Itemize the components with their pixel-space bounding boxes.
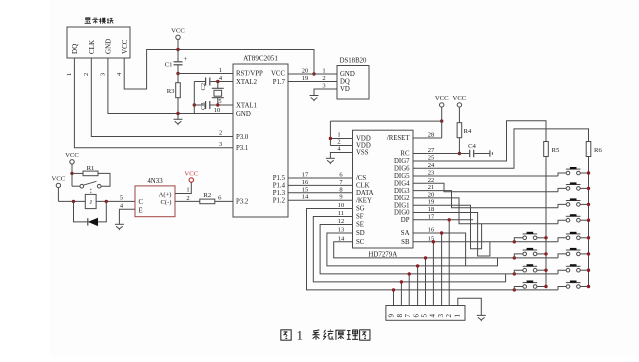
svg-text:3: 3 — [100, 73, 107, 76]
wire relay right — [96, 200, 135, 202]
resistor R1 — [72, 165, 110, 186]
AT89C2051 right pin numbers — [302, 68, 309, 201]
svg-text:11: 11 — [338, 210, 344, 217]
svg-text:21: 21 — [428, 184, 434, 191]
resistor R6 — [586, 142, 602, 157]
svg-text:14: 14 — [338, 235, 345, 242]
node SL6 column — [544, 252, 547, 255]
svg-text:P1.5: P1.5 — [273, 175, 286, 182]
HD7279A pin names — [356, 135, 410, 246]
svg-text:DIG1: DIG1 — [394, 202, 409, 209]
svg-text:13: 13 — [338, 227, 344, 234]
svg-text:C1: C1 — [165, 62, 173, 69]
4N33 pin names — [139, 191, 172, 214]
display module pin labels — [71, 39, 129, 54]
svg-text:VCC: VCC — [453, 95, 467, 102]
svg-text:C(-): C(-) — [161, 199, 172, 206]
svg-text:28: 28 — [428, 132, 434, 139]
wire SD segment — [327, 233, 498, 266]
svg-text:R1: R1 — [87, 165, 95, 172]
wire 4N33 E to ground — [119, 209, 135, 224]
svg-text:22: 22 — [428, 177, 434, 184]
svg-text:23: 23 — [428, 170, 434, 177]
svg-text:5: 5 — [421, 314, 429, 318]
svg-text:VD: VD — [340, 86, 350, 93]
wire DP — [413, 219, 473, 221]
wire R6 column — [580, 157, 588, 287]
resistor R5 — [544, 142, 560, 157]
display pin numbers — [66, 72, 123, 76]
svg-text:VDD: VDD — [356, 136, 371, 143]
node C1/R3/RST junction — [176, 72, 179, 75]
node SL7 column — [544, 269, 547, 272]
svg-text:DQ: DQ — [340, 79, 350, 86]
wire connector pin7 vertical — [408, 274, 410, 306]
svg-text:16: 16 — [428, 227, 435, 234]
crystal Y1 — [212, 82, 224, 106]
svg-text:A(+): A(+) — [159, 191, 172, 198]
capacitor C4 — [468, 143, 492, 157]
svg-text:10: 10 — [214, 107, 220, 114]
AT89C2051 left pin numbers — [214, 67, 223, 202]
wire connector pin6 vertical — [417, 266, 419, 306]
node SR7 column — [587, 269, 590, 272]
wire DQ to P3.1 — [74, 58, 233, 148]
wire DIG0 hook — [413, 213, 490, 257]
svg-text:DIG5: DIG5 — [394, 173, 410, 180]
node v5 — [424, 256, 427, 259]
ground below VSS — [326, 158, 335, 164]
svg-text:VCC: VCC — [435, 95, 449, 102]
wire DIG2 row4 — [413, 198, 558, 224]
svg-text:/RESET: /RESET — [387, 135, 411, 142]
svg-text:DQ: DQ — [71, 44, 79, 54]
svg-text:5: 5 — [218, 98, 221, 105]
key SR5 — [558, 232, 589, 242]
node v2 — [400, 280, 403, 283]
svg-text:10: 10 — [338, 202, 344, 209]
svg-text:R6: R6 — [594, 147, 602, 154]
svg-text:DIG0: DIG0 — [394, 210, 410, 217]
svg-text:XTAL2: XTAL2 — [236, 79, 258, 86]
key SR8 — [558, 281, 589, 290]
svg-text:R5: R5 — [552, 147, 560, 154]
wire GND rail — [108, 58, 233, 114]
relay J coil — [85, 194, 96, 208]
svg-text:3: 3 — [219, 141, 222, 148]
wire SF segment — [313, 217, 505, 282]
wire R5 column — [537, 157, 546, 287]
VCC symbol above R4 — [453, 95, 467, 123]
svg-text:2: 2 — [445, 314, 453, 318]
wire connector pin1 to ground — [458, 298, 482, 315]
wire SE segment row7 — [320, 225, 558, 274]
caption — [281, 328, 370, 343]
connector J1 box — [386, 306, 465, 321]
node v3 — [408, 272, 411, 275]
svg-text:DATA: DATA — [356, 190, 374, 197]
resistor R3 — [167, 74, 181, 114]
wire DIG7 to R5 — [413, 121, 546, 161]
svg-text:1: 1 — [297, 328, 303, 343]
svg-text:P1.2: P1.2 — [273, 197, 286, 204]
svg-text:P3.0: P3.0 — [236, 134, 249, 141]
svg-text:16: 16 — [302, 179, 309, 186]
wire P1.5 to /CS — [288, 177, 353, 179]
svg-text:P3.2: P3.2 — [236, 199, 249, 206]
svg-text:GND: GND — [340, 71, 355, 78]
svg-text:CLK: CLK — [356, 183, 370, 190]
node row5 tap — [513, 240, 516, 243]
wire RESET — [413, 121, 442, 138]
svg-text:8: 8 — [396, 314, 404, 318]
wire P1.2 to /KEY — [288, 199, 353, 201]
node RC junction — [458, 152, 461, 155]
wire XTAL2 row — [194, 81, 233, 83]
wire VD to ground — [314, 89, 337, 96]
svg-text:SD: SD — [356, 230, 365, 237]
svg-text:C2: C2 — [200, 83, 207, 91]
VCC symbol above RESET — [435, 95, 449, 121]
svg-text:4: 4 — [429, 314, 437, 318]
wire CLK to P3.0 — [91, 58, 233, 137]
svg-text:DP: DP — [401, 217, 410, 224]
svg-text:DIG7: DIG7 — [394, 158, 410, 165]
svg-text:20: 20 — [428, 191, 434, 198]
DS18B20 pin names — [340, 71, 355, 93]
node VCC rail junction — [176, 48, 179, 51]
node VCC RESET junction — [440, 119, 443, 122]
node v7 — [440, 231, 443, 234]
svg-text:C4: C4 — [468, 143, 476, 150]
svg-text:3: 3 — [437, 314, 445, 318]
key SL8 — [514, 281, 546, 290]
svg-text:2: 2 — [337, 139, 340, 146]
node row7 tap — [513, 272, 516, 275]
svg-text:SA: SA — [401, 230, 410, 237]
node SL5 column — [544, 236, 547, 239]
svg-text:1: 1 — [219, 67, 222, 74]
wire connector pin5 vertical — [425, 258, 427, 306]
node VDD junction — [329, 137, 332, 140]
svg-text:SF: SF — [356, 214, 364, 221]
HD7279A right pin numbers — [428, 132, 435, 243]
AT89C2051 left pin names — [236, 71, 263, 206]
key SR4 — [558, 214, 589, 224]
svg-text:14: 14 — [302, 194, 309, 201]
svg-text:8: 8 — [339, 186, 342, 193]
wire SB row5 — [413, 241, 558, 243]
node VCC pin20 junction — [312, 72, 315, 75]
wire RC — [413, 153, 469, 155]
wire connector pin9 vertical — [393, 290, 395, 306]
capacitor C1 — [165, 50, 188, 74]
svg-text:E: E — [139, 207, 143, 214]
svg-text:RST/VPP: RST/VPP — [236, 71, 263, 78]
svg-text:12: 12 — [338, 218, 344, 225]
wire SG segment row8 — [307, 209, 559, 290]
node R5 column row8 — [544, 285, 547, 288]
node SR6 column — [587, 252, 590, 255]
wire connector pin3 vertical — [441, 233, 443, 306]
VCC symbol top — [171, 28, 185, 50]
capacitor C3 — [200, 101, 210, 110]
VCC red above 4N33 — [184, 171, 198, 183]
wire DIG5 row1 — [413, 175, 558, 177]
node XTAL2 junction — [216, 80, 219, 83]
key SR3 — [558, 198, 589, 207]
svg-text:R3: R3 — [167, 88, 175, 95]
IC U1 AT89C2051 box — [233, 55, 288, 218]
diode D1 flyback — [74, 201, 107, 226]
DS18B20 pin numbers — [322, 68, 325, 90]
key SR2 — [558, 182, 589, 191]
svg-text:C3: C3 — [200, 102, 207, 110]
svg-text:GND: GND — [105, 39, 113, 54]
svg-text:6: 6 — [412, 314, 420, 318]
svg-text:P3.1: P3.1 — [236, 145, 248, 152]
display module box — [67, 18, 130, 58]
AT89C2051 right pin names — [271, 71, 286, 205]
svg-text:1: 1 — [453, 314, 461, 318]
svg-text:17: 17 — [428, 213, 435, 220]
wire P1.7 to DQ — [288, 81, 337, 83]
svg-text:SE: SE — [356, 222, 364, 229]
wire 4N33 pin1 to VCC — [175, 182, 191, 193]
svg-text:DIG4: DIG4 — [394, 181, 410, 188]
node relay right junction — [105, 200, 108, 203]
svg-text:9: 9 — [339, 194, 342, 201]
switch S1 — [72, 173, 101, 188]
svg-text:VDD: VDD — [356, 143, 371, 150]
wire VCC to relay — [58, 200, 85, 202]
node R1 left junction — [70, 172, 73, 175]
svg-text:RC: RC — [400, 151, 410, 158]
svg-text:1: 1 — [186, 187, 189, 194]
ground below 4N33 — [115, 224, 124, 230]
svg-text:CLK: CLK — [88, 40, 96, 54]
wire RST — [178, 73, 233, 75]
svg-text:R4: R4 — [464, 128, 472, 135]
svg-text:1: 1 — [66, 73, 73, 76]
svg-text:VCC: VCC — [171, 28, 185, 35]
svg-text:VCC: VCC — [52, 176, 66, 183]
node row8 tap — [513, 288, 516, 291]
svg-text:GND: GND — [236, 111, 251, 118]
VCC symbol above R1 — [65, 152, 79, 173]
svg-text:9: 9 — [388, 314, 396, 318]
svg-text:1: 1 — [337, 132, 340, 139]
svg-text:2: 2 — [83, 73, 90, 76]
svg-text:R2: R2 — [203, 192, 211, 199]
svg-text:4N33: 4N33 — [147, 178, 163, 185]
svg-text:SG: SG — [356, 206, 365, 213]
node v8 — [448, 218, 451, 221]
wire DIG3 row3 — [413, 191, 558, 208]
svg-text:18: 18 — [428, 206, 434, 213]
svg-text:1: 1 — [322, 68, 325, 75]
resistor R2 — [175, 192, 233, 204]
ground below DS18B20 — [310, 96, 319, 102]
capacitor C2 — [200, 78, 210, 91]
svg-text:VCC: VCC — [121, 39, 129, 54]
wire pin20 to DS18B20 — [288, 73, 337, 75]
wire P1.4 to CLK — [288, 184, 353, 186]
svg-text:2: 2 — [219, 130, 222, 137]
svg-text:2: 2 — [322, 75, 325, 82]
ground connector — [477, 315, 486, 321]
svg-text:SC: SC — [356, 239, 365, 246]
node SR1 column — [587, 171, 590, 174]
svg-text:AT89C2051: AT89C2051 — [243, 55, 278, 63]
key SR7 — [558, 264, 589, 274]
svg-text:VCC: VCC — [184, 171, 198, 178]
svg-text:SB: SB — [401, 239, 410, 246]
svg-text:/KEY: /KEY — [356, 197, 372, 204]
wire connector pin2 vertical — [448, 220, 450, 306]
svg-text:DS18B20: DS18B20 — [340, 58, 367, 65]
resistor R4 — [457, 123, 472, 154]
node R3 bottom junction — [176, 112, 179, 115]
wire connector pin8 vertical — [400, 282, 402, 306]
node SR3 column — [587, 203, 590, 206]
wire DIG6 to R6 — [413, 129, 589, 168]
key SL6 — [514, 248, 546, 258]
wire SC segment row6 — [334, 242, 558, 258]
wire SA — [413, 233, 466, 266]
HD7279A box — [353, 130, 414, 258]
4N33 pin numbers — [120, 187, 190, 210]
key SL5 — [514, 232, 546, 242]
svg-text:VCC: VCC — [65, 152, 79, 159]
svg-text:19: 19 — [302, 75, 308, 82]
node SR5 column — [587, 236, 590, 239]
wire DIG1 hook — [413, 205, 482, 249]
wire DIG4 row2 — [413, 183, 558, 192]
opto-isolator U2 4N33 box — [135, 178, 175, 217]
svg-text:P1.7: P1.7 — [273, 79, 286, 86]
node C3 left junction — [193, 103, 196, 106]
svg-text:25: 25 — [428, 155, 434, 162]
node SR2 column — [587, 187, 590, 190]
wire P1.3 to DATA — [288, 192, 353, 194]
node v6 — [432, 240, 435, 243]
node relay left junction — [72, 200, 75, 203]
key SR6 — [558, 248, 589, 258]
svg-text:P1.3: P1.3 — [273, 190, 286, 197]
svg-text:/CS: /CS — [356, 175, 366, 182]
key SL7 — [514, 264, 546, 274]
svg-text:+: + — [184, 55, 188, 63]
svg-text:24: 24 — [428, 162, 435, 169]
dotted link switch to relay — [90, 189, 92, 195]
svg-text:5: 5 — [120, 194, 123, 201]
svg-text:VSS: VSS — [356, 150, 369, 157]
VCC symbol left of relay — [52, 176, 66, 202]
svg-text:P1.4: P1.4 — [273, 183, 286, 190]
svg-text:XTAL1: XTAL1 — [236, 102, 257, 109]
key SR1 — [558, 167, 589, 176]
node SR8 column — [587, 285, 590, 288]
svg-text:20: 20 — [302, 68, 308, 75]
wire VSS to ground — [330, 153, 352, 159]
wire connector pin4 vertical — [432, 242, 434, 306]
svg-text:VCC: VCC — [271, 71, 285, 78]
wire VDD rail — [330, 121, 441, 145]
svg-text:C: C — [139, 199, 144, 206]
wire XTAL1 row — [194, 104, 233, 106]
node XTAL1 junction — [216, 103, 219, 106]
DS18B20 box — [337, 58, 369, 100]
svg-text:27: 27 — [428, 147, 435, 154]
wire VCC pin4 to rail — [124, 50, 314, 90]
svg-text:15: 15 — [302, 186, 308, 193]
wire crystal left vertical — [193, 82, 195, 114]
svg-text:DIG3: DIG3 — [394, 188, 410, 195]
node v4 — [416, 264, 419, 267]
ground below R3 — [174, 114, 183, 126]
node row6 tap — [513, 256, 516, 259]
svg-text:DIG6: DIG6 — [394, 166, 410, 173]
svg-text:17: 17 — [302, 172, 309, 179]
node SR4 column — [587, 219, 590, 222]
HD7279A left pin numbers — [337, 132, 345, 243]
node v1 — [392, 288, 395, 291]
svg-text:7: 7 — [404, 314, 412, 318]
svg-text:DIG2: DIG2 — [394, 195, 410, 202]
svg-text:HD7279A: HD7279A — [368, 251, 397, 258]
svg-text:19: 19 — [428, 199, 434, 206]
svg-text:3: 3 — [322, 83, 325, 90]
